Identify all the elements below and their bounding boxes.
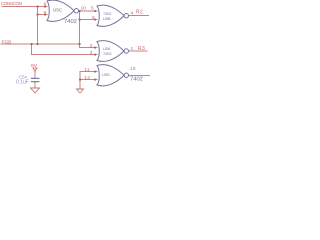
svg-text:U5C: U5C [53, 8, 63, 14]
svg-text:7402: 7402 [130, 76, 143, 82]
svg-text:R2: R2 [136, 10, 143, 16]
svg-text:11: 11 [84, 67, 90, 73]
svg-text:6: 6 [92, 15, 95, 21]
svg-text:4: 4 [131, 10, 134, 16]
svg-text:PGB: PGB [2, 40, 12, 45]
svg-text:2: 2 [90, 43, 93, 49]
svg-text:0.1uF: 0.1uF [16, 80, 29, 86]
svg-text:13: 13 [130, 66, 136, 72]
svg-text:7402: 7402 [64, 19, 77, 25]
svg-text:CONSCON: CONSCON [1, 1, 22, 6]
svg-text:U5B: U5B [103, 17, 111, 21]
svg-text:1: 1 [131, 46, 134, 52]
svg-text:7402: 7402 [103, 12, 111, 16]
svg-text:10: 10 [81, 6, 87, 12]
svg-text:U5D: U5D [102, 73, 110, 77]
svg-text:8: 8 [43, 1, 46, 7]
svg-text:U5A: U5A [103, 47, 111, 51]
svg-text:7402: 7402 [103, 52, 111, 56]
svg-text:3: 3 [90, 50, 93, 56]
svg-text:5: 5 [91, 6, 94, 12]
svg-text:9: 9 [43, 10, 46, 16]
svg-text:R3: R3 [138, 46, 145, 52]
svg-text:12: 12 [84, 75, 90, 81]
